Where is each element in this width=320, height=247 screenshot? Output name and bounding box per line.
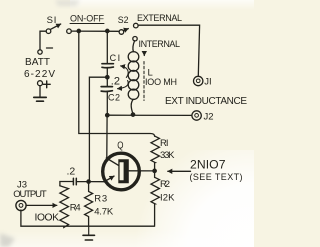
svg-text:EXTERNAL: EXTERNAL	[137, 13, 182, 23]
wire emitter node to coupling cap	[77, 181, 89, 183]
wire J3 to ground bus	[21, 210, 155, 226]
arrow .2 to C2	[118, 81, 129, 89]
svg-text:RI: RI	[160, 138, 169, 149]
top supply rail wire	[71, 30, 119, 32]
wire S2 external contact to J1	[138, 25, 199, 76]
2N107 label	[190, 158, 243, 182]
node: rail to left rail junction	[77, 29, 80, 32]
svg-text:R4: R4	[70, 203, 81, 214]
node: capacitor tap junction	[106, 76, 109, 79]
node: rail to C1 column junction	[106, 29, 109, 32]
svg-text:Q: Q	[117, 140, 123, 151]
emitter node wire	[89, 181, 105, 183]
svg-text:SI: SI	[47, 15, 57, 26]
svg-text:ON-OFF: ON-OFF	[70, 13, 105, 23]
svg-text:J2: J2	[204, 112, 214, 123]
R2 label	[160, 179, 175, 204]
arrow .2 to C1	[121, 66, 129, 78]
svg-text:.2: .2	[111, 75, 120, 87]
svg-text:IOOK: IOOK	[35, 213, 60, 224]
inductor value label L 100MH	[145, 68, 177, 88]
wire internal contact to coil top	[133, 41, 135, 52]
transistor Q	[103, 153, 140, 190]
wire tank node to J2	[107, 114, 192, 116]
switch S1	[46, 24, 71, 34]
resistor R2	[151, 171, 159, 226]
wire S1 pole to battery minus	[40, 31, 46, 50]
svg-text:(SEE TEXT): (SEE TEXT)	[190, 172, 243, 182]
node: base divider junction	[153, 169, 156, 172]
battery label BATT 6-22V	[24, 57, 55, 80]
svg-text:IOO MH: IOO MH	[145, 77, 177, 87]
resistor R3	[85, 182, 93, 227]
adjustable core dashed line	[143, 62, 145, 101]
potentiometer R4	[60, 186, 69, 228]
ground (battery)	[34, 97, 46, 101]
R3 label	[94, 194, 114, 218]
svg-text:I2K: I2K	[160, 193, 175, 204]
svg-text:R2: R2	[160, 179, 170, 190]
left rail wire (rail to R1)	[79, 31, 155, 136]
wire C1 to C2	[106, 68, 108, 87]
wire capacitor tap to emitter column	[89, 77, 107, 181]
R4 label	[35, 203, 81, 224]
ground (main)	[83, 226, 95, 240]
svg-text:2NIO7: 2NIO7	[190, 158, 226, 172]
resistor R1	[151, 136, 159, 171]
switch S2	[119, 23, 138, 34]
svg-text:33K: 33K	[160, 150, 175, 161]
R4 wiper arrow from J3	[26, 204, 57, 206]
wire battery plus to ground	[39, 86, 41, 97]
wire rail to C1	[106, 31, 108, 63]
ON-OFF label	[70, 13, 105, 23]
battery plus terminal	[38, 81, 51, 88]
node: C column tank junction	[106, 114, 109, 117]
2N107 pointer arrow	[168, 170, 191, 172]
svg-text:OUTPUT: OUTPUT	[13, 189, 47, 200]
jack J1	[194, 76, 203, 85]
wire coil bottom to tank node	[131, 99, 133, 114]
svg-text:JI: JI	[204, 77, 211, 88]
jack J2	[192, 111, 201, 120]
S2 internal contact	[133, 37, 137, 41]
node: emitter junction	[87, 180, 90, 183]
capacitor C2	[101, 87, 112, 92]
svg-text:S2: S2	[118, 15, 129, 25]
jack J3	[16, 200, 26, 210]
svg-text:4.7K: 4.7K	[94, 207, 114, 218]
svg-text:R3: R3	[94, 194, 107, 205]
capacitor C1	[102, 64, 113, 68]
svg-text:EXT INDUCTANCE: EXT INDUCTANCE	[165, 96, 247, 107]
R1 label	[160, 138, 175, 161]
svg-text:INTERNAL: INTERNAL	[139, 39, 181, 49]
coupling capacitor	[73, 178, 76, 185]
base wire	[129, 170, 155, 172]
wire tank node down to collector	[106, 115, 108, 157]
svg-text:6-22V: 6-22V	[24, 69, 55, 80]
svg-text:CI: CI	[110, 53, 121, 63]
wire C2 to tank node and collector	[106, 91, 108, 115]
wire coupling cap to R4 top	[60, 182, 73, 186]
svg-text:BATT: BATT	[25, 57, 50, 68]
adjustable core arrow	[143, 52, 145, 55]
battery minus terminal	[38, 48, 53, 54]
node: coil bottom junction	[131, 113, 134, 116]
svg-text:.2: .2	[67, 166, 76, 178]
svg-text:C2: C2	[108, 93, 120, 103]
J3 OUTPUT label	[13, 179, 47, 200]
inductor L coil	[128, 52, 139, 100]
